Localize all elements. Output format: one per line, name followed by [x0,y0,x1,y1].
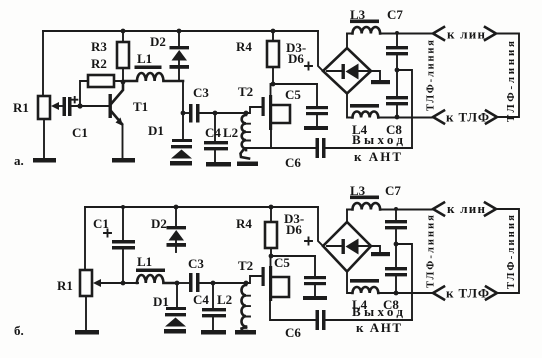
ground bar under R1 [33,158,56,163]
svg-text:D1: D1 [148,123,164,138]
node: D1/signal junction dot [175,281,180,286]
connector arrow: tlf left [433,111,444,124]
wire: signal line to L1 [101,282,138,284]
svg-text:D1: D1 [153,294,169,309]
svg-text:D2: D2 [151,216,167,231]
svg-text:C1: C1 [72,125,88,140]
transistor T2 case box [272,277,289,297]
wire: T2 drain up and right to C5 [271,256,316,266]
svg-text:D2: D2 [150,34,166,49]
node: R1 wiper arrow [54,105,62,107]
node: C8 bottom junction dot [394,291,399,296]
svg-text:б.: б. [14,323,24,338]
svg-text:C7: C7 [385,183,401,198]
svg-text:C6: C6 [285,325,301,340]
svg-text:R2: R2 [91,56,107,71]
svg-text:к лин: к лин [447,201,486,216]
bridge rectifier D3-D6 [323,222,371,272]
label + of C1 [72,97,77,102]
svg-text:R4: R4 [236,39,252,54]
svg-text:к АНТ: к АНТ [356,320,401,335]
wire: C1 to T1 base [72,105,110,107]
wire: top supply rail [43,30,318,32]
transistor T1 collector [111,82,123,104]
capacitor C1 (electrolytic) [63,97,67,116]
ground bar under D1 [170,161,192,166]
capacitor C6 [316,310,320,330]
inductor L4 [347,272,353,294]
node: C8 bottom junction dot [395,115,400,120]
svg-text:ТЛФ-линия: ТЛФ-линия [505,41,517,122]
resistor R1 (potentiometer body) [38,96,50,119]
wire: junction to antenna riser [396,244,412,320]
svg-text:C1: C1 [93,216,109,231]
transistor T2 gate lead [246,107,262,113]
node: rail/R3 junction dot [121,29,126,34]
node: rail/D2 junction dot [177,29,182,34]
wire: T2 drain up and right to C5 [271,84,318,95]
capacitor C8 [396,70,398,96]
wire: L3 to line arrow [347,209,433,211]
transistor T2 case box [272,105,290,123]
diode D2 [178,31,180,46]
ground bar under C4 [201,330,226,335]
node: R1 wiper arrow [96,282,104,284]
capacitor C3 [177,282,189,284]
node: R4 bottom junction [269,254,274,259]
ground at bridge right vertex [371,71,380,80]
wire: R3 bottom lead to node [122,68,124,82]
node: C7 top junction dot [394,207,398,211]
svg-text:R4: R4 [236,216,252,231]
svg-text:Выход: Выход [352,132,403,147]
node: C1/signal junction dot [121,281,126,286]
svg-text:T2: T2 [238,84,253,99]
connector arrow: tlf right [486,287,497,300]
inductor L1 core bar [136,269,165,273]
transistor T2 channel bar [269,266,272,301]
svg-text:C5: C5 [285,87,301,102]
svg-text:ТЛФ-линия: ТЛФ-линия [426,215,437,288]
wire: left rail down to R1 [84,207,86,270]
node: R4 bottom junction [271,82,276,87]
node: C7/C8 junction [394,242,399,247]
wire: antenna output line [326,147,412,149]
node: rail/C1 junction dot [121,205,125,209]
svg-text:C4: C4 [193,292,209,307]
connector arrow: line out left [433,27,444,40]
svg-text:C5: C5 [274,255,290,270]
ground bar under L2 [237,162,258,167]
wire: antenna output line [326,319,412,321]
transistor T2 gate bar [262,267,265,286]
node: base/R2 junction [77,103,82,108]
transistor T1 base bar [109,94,112,118]
svg-text:C4: C4 [205,125,221,140]
capacitor C3 [183,112,189,114]
svg-text:к лин: к лин [447,27,486,42]
node: C4/signal junction dot [213,111,218,116]
svg-text:к АНТ: к АНТ [354,149,401,164]
wire: rail corner down to bridge [318,31,323,71]
node: L2/gate junction dot [244,111,249,116]
svg-text:L1: L1 [137,254,152,269]
svg-text:L3: L3 [350,7,366,22]
svg-text:R1: R1 [57,278,73,293]
connector arrow: tlf right [486,111,497,124]
svg-text:D6: D6 [288,51,304,66]
wire: T1 emitter down [122,125,124,158]
wire: R1 bottom lead [85,296,87,330]
inductor L1 windings [137,275,177,283]
connector arrow: line out right [485,27,496,40]
node: C7/C8 junction [395,68,400,73]
node: C7 top junction dot [395,31,399,35]
node: L2/gate junction dot [244,281,249,286]
svg-text:L2: L2 [217,292,232,307]
svg-text:ТЛФ-линия: ТЛФ-линия [506,215,517,289]
inductor L1 windings [123,73,183,81]
connector arrow: tlf left [433,287,444,300]
svg-text:L3: L3 [350,183,366,198]
wire: L1/D2 node down to signal wire [182,81,184,113]
node: C4/signal junction dot [211,281,216,286]
wire: junction to antenna riser [397,70,412,148]
node: rail/R4 junction dot [269,205,274,210]
svg-text:C3: C3 [188,256,204,271]
svg-text:к ТЛФ: к ТЛФ [446,110,489,125]
ground at bridge right vertex [371,246,380,252]
resistor R3 [117,42,129,68]
capacitor C5 [314,256,316,276]
svg-text:ТЛФ-линия: ТЛФ-линия [426,40,437,111]
resistor R2 [88,75,114,87]
svg-text:к ТЛФ: к ТЛФ [446,286,489,301]
capacitor C8 [395,244,397,267]
inductor L3 [346,34,348,49]
capacitor C5 [316,84,318,106]
inductor L3 [346,210,348,223]
capacitor C6 [316,138,320,158]
svg-text:L2: L2 [223,125,238,140]
wire: external line loop [496,209,519,293]
wire: R3 top lead [122,31,124,42]
ground bar under D1 [164,329,186,334]
svg-text:T1: T1 [133,99,148,114]
svg-text:D6: D6 [286,222,302,237]
inductor L4 [347,94,353,118]
connector arrow: line out right [485,203,496,216]
node: rail/D2 junction dot [174,205,179,210]
wire: R2 right lead [114,81,123,82]
transistor T2 channel bar [269,95,272,130]
label + of C1 [104,230,111,237]
svg-text:R1: R1 [13,100,29,115]
wire: bottom circuit supply rail [85,206,318,208]
svg-text:а.: а. [14,153,24,168]
svg-text:R3: R3 [91,39,107,54]
inductor L1 core bar [135,66,162,70]
wire: external line loop [496,34,519,118]
transistor T2 gate bar [262,97,265,116]
transistor T2 gate lead [246,276,262,283]
wire: L4 to TLF arrow [378,117,433,119]
svg-text:C3: C3 [193,85,209,100]
ground bar under C4 [206,162,231,167]
bridge rectifier D3-D6 [323,48,371,94]
resistor R1 (potentiometer body) [80,270,92,296]
wire: R1 bottom lead [43,119,45,158]
connector arrow: line out left [433,203,444,216]
svg-text:C6: C6 [285,155,301,170]
wire: rail corner down to bridge [318,207,323,246]
node: rail/R4 junction dot [271,29,276,34]
ground bar under L2 [235,330,256,335]
ground bar under R1 [75,330,99,335]
node: R2/R3/L1/collector junction [121,80,126,85]
svg-text:C7: C7 [387,7,403,22]
wire: L3 to line arrow [347,33,433,35]
svg-text:L1: L1 [137,51,152,66]
svg-text:T2: T2 [238,258,253,273]
transistor T1 emitter with arrow [111,111,122,124]
label + at bridge input [305,238,312,245]
node: D1/signal junction dot [181,111,186,116]
ground bar under T1 [112,158,135,163]
label + at bridge input [305,63,312,70]
wire: R2 left lead down to base wire [80,81,88,106]
wire: left rail down to R1 [42,31,44,96]
wire: L4 to TLF arrow [378,292,433,294]
svg-text:Выход: Выход [352,304,403,319]
